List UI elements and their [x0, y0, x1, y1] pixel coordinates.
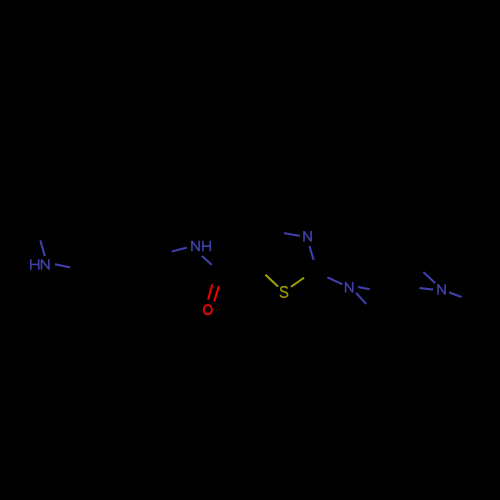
piperazine N1 atom label	[346, 282, 353, 293]
double bond C=O line 1 (half near O)	[208, 284, 212, 299]
double bond C=O line 2 (half near O)	[214, 286, 219, 301]
bond piperazine N1-C2 (half near N)	[358, 287, 370, 289]
bond thiazole C5-S1 (half near S)	[265, 275, 278, 287]
bond indole N1-C2 (half near N)	[55, 264, 70, 267]
thiazole N3 atom label	[304, 231, 311, 242]
bond piperazine N1-C6 (half near N)	[356, 293, 366, 304]
bond amide N-C(=O) (half near N)	[202, 256, 212, 265]
thiazole S1 atom label	[280, 287, 287, 298]
bond piperazine C5-N4 (half near N)	[419, 288, 433, 290]
piperazine N4 atom label	[438, 284, 445, 295]
bond thiazole S1-C2 (half near S)	[291, 278, 304, 287]
bond indole C7a-N1 (half near N)	[40, 240, 45, 256]
indole N-H atom label "HN"	[31, 259, 49, 269]
bond thiazole C4-N3 (half near N)	[284, 233, 300, 236]
carbonyl O atom label	[204, 305, 212, 314]
bond piperazine N4-CH3 (half near N)	[449, 292, 461, 297]
bond thiazole N3=C2 (half near N)	[309, 246, 313, 260]
amide N-H atom label "NH"	[192, 241, 210, 252]
bond piperazine C3-N4 (half near N)	[424, 272, 436, 283]
bond thiazole C2-piperazine N1 (half near N)	[327, 277, 342, 284]
bond aryl C5-N amide (half near N)	[172, 248, 187, 252]
